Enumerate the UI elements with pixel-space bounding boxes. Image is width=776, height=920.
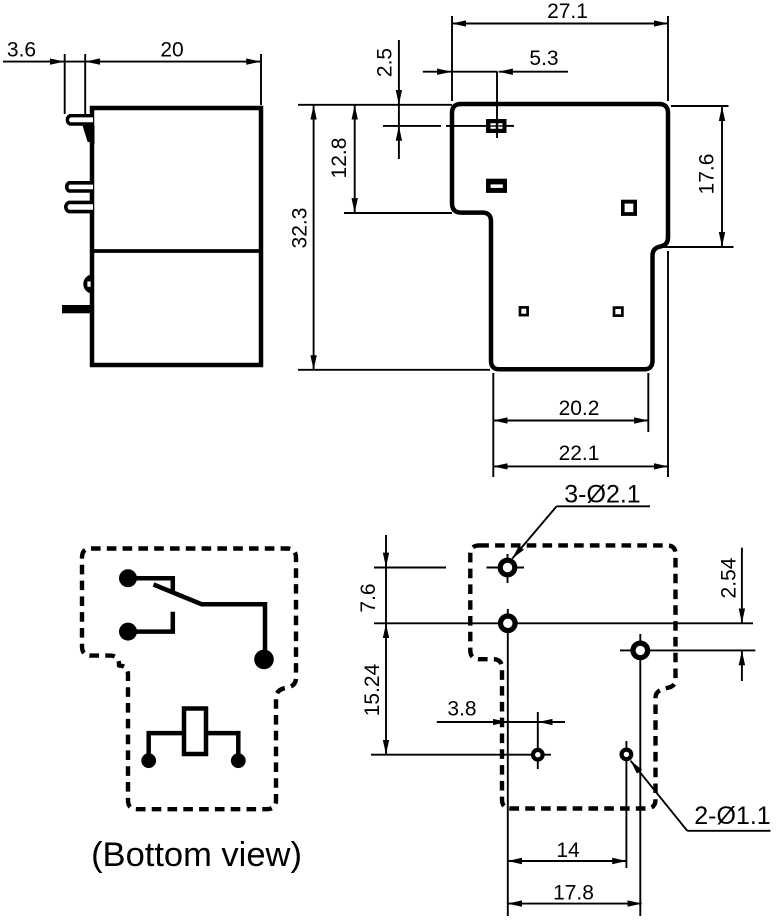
hole 1 (mounting hole 2.1): [500, 560, 515, 575]
svg-text:2-Ø1.1: 2-Ø1.1: [694, 802, 770, 830]
hole 5 (coil pin hole 1.1): [622, 750, 632, 760]
dim line 2.5 middle segment: [398, 105, 400, 126]
extension line at pin tip: [64, 54, 66, 114]
hole 3 crosshair horizontal: [620, 649, 755, 651]
coil left lead: [149, 733, 184, 756]
svg-text:5.3: 5.3: [529, 47, 558, 70]
common terminal dot: [254, 650, 274, 670]
svg-text:22.1: 22.1: [559, 442, 600, 465]
pin A centerline over pin: [496, 119, 498, 133]
svg-text:3-Ø2.1: 3-Ø2.1: [564, 481, 640, 509]
leader underline 2-Ø1.1: [687, 830, 770, 832]
svg-text:2.54: 2.54: [718, 557, 741, 598]
hole 1 reference line left: [374, 567, 446, 569]
extension line left (body left edge): [451, 16, 453, 101]
dim line 22.1: [494, 465, 669, 467]
extension line lower-right edge: [647, 373, 649, 432]
svg-text:12.8: 12.8: [328, 138, 351, 179]
NC contact wire with hook: [128, 578, 173, 593]
svg-text:15.24: 15.24: [361, 663, 384, 716]
dim line 7.6/15.24 connecting segment: [385, 568, 387, 624]
dim line 7.6 upper tail with down arrow: [385, 535, 387, 567]
extension line at pin base: [84, 54, 86, 126]
svg-text:17.6: 17.6: [696, 154, 719, 195]
svg-text:3.8: 3.8: [447, 698, 476, 721]
coil pin end-on (half washer): [83, 274, 93, 293]
hole 1 crosshair vertical: [507, 554, 509, 583]
dim line 2.54 lower tail with up arrow: [741, 651, 743, 681]
svg-text:32.3: 32.3: [289, 208, 312, 249]
NC contact terminal dot: [119, 569, 137, 587]
dim line 2.54 upper tail with down arrow: [741, 548, 743, 623]
bottom pin (solid): [62, 305, 93, 313]
white notch in half washer: [87, 281, 90, 286]
pin B white slit: [491, 184, 503, 188]
dim line 32.3: [313, 106, 315, 370]
svg-text:20.2: 20.2: [559, 397, 600, 420]
switch blade wire to common: [154, 585, 266, 660]
pin C white center: [625, 204, 634, 213]
dashed relay outline: [82, 549, 296, 810]
svg-text:14: 14: [556, 839, 580, 862]
leader underline 3-Ø2.1: [557, 505, 650, 507]
svg-text:27.1: 27.1: [547, 0, 588, 23]
hole 5 crosshair vertical (long centerline): [625, 741, 627, 868]
body divider line: [92, 249, 261, 253]
coil right terminal dot: [231, 753, 246, 768]
extension line right (body right edge): [667, 16, 669, 101]
extension line bottom-left corner: [492, 373, 494, 477]
hole 2 crosshair horizontal (long centerline): [374, 622, 753, 624]
pin A centerline horizontal (dash): [383, 125, 441, 127]
right step reference line (17.6 bottom): [656, 246, 734, 248]
leader arrow to hole 5: [631, 761, 688, 831]
hole 4 crosshair vertical: [537, 712, 539, 769]
top pin (flat lug): [67, 116, 93, 124]
extension line right edge (down from notch): [667, 251, 669, 477]
pin A white slit upper: [491, 123, 503, 125]
svg-text:(Bottom view): (Bottom view): [91, 836, 302, 874]
dim line 5.3 middle segment: [452, 71, 498, 73]
pin A white slit lower: [491, 127, 503, 129]
dim line 2.5 lower tail with up arrow: [398, 127, 400, 159]
svg-text:20: 20: [160, 39, 183, 62]
dim line 14: [508, 860, 627, 862]
NO contact wire with hook: [128, 612, 173, 632]
relay footprint outline (T-shape): [452, 104, 668, 369]
hole 1 crosshair horizontal: [487, 567, 525, 569]
step reference line (12.8 bottom): [344, 212, 452, 214]
dim line 2.5 upper part with down arrow: [398, 40, 400, 104]
bottom edge reference line (left): [298, 369, 490, 371]
extension line at body right: [260, 54, 262, 105]
dim line 5.3 left tail with arrow: [423, 71, 452, 73]
NO contact terminal dot: [119, 623, 137, 641]
dim line segment between extension lines: [65, 61, 86, 63]
dim line 17.8: [508, 903, 642, 905]
hole 4 crosshair horizontal (15.24 reference): [371, 754, 551, 756]
dashed relay outline: [470, 545, 675, 808]
dim line 3.6 (arrow pointing right): [3, 61, 64, 63]
hole 2 crosshair vertical (long centerline): [507, 609, 509, 916]
top edge reference line (left): [298, 104, 452, 106]
relay body rectangle: [92, 108, 261, 365]
dim line 15.24 (up arrow at top, down arrow at bottom): [385, 624, 387, 754]
leader arrow to hole 1: [512, 506, 556, 558]
dim line 17.6: [721, 107, 723, 246]
pin B (flat lug): [486, 179, 507, 193]
bent pin wedge below top pin: [83, 126, 95, 145]
pin A (flat lug, top): [486, 119, 507, 133]
dim line 27.1: [452, 23, 668, 25]
hole 3 crosshair vertical (long centerline): [639, 634, 641, 916]
pin A centerline horizontal (dash 2): [446, 125, 486, 127]
dim line 20 (arrows at both ends): [86, 61, 261, 63]
pin D (coil pin left): [520, 307, 528, 315]
svg-text:2.5: 2.5: [374, 48, 397, 77]
top edge reference line (right): [671, 105, 729, 107]
dim line 12.8: [354, 106, 356, 213]
coil left terminal dot: [141, 753, 156, 768]
hole 3 (mounting hole 2.1): [633, 643, 648, 658]
svg-text:3.6: 3.6: [7, 39, 36, 62]
dim line 20.2: [494, 420, 649, 422]
pin C (square pin right): [621, 200, 637, 216]
middle pin 1: [67, 183, 93, 191]
dim line 3.8 middle segment: [508, 721, 538, 723]
dim line 5.3 right tail with arrow: [499, 71, 568, 73]
hole 4 (coil pin hole 1.1): [533, 750, 543, 760]
coil right lead: [206, 733, 238, 756]
pin E (coil pin right): [614, 308, 622, 316]
hole 2 (mounting hole 2.1): [501, 616, 516, 631]
pin A centerline vertical: [496, 72, 498, 138]
dim line 3.8 left tail with arrow: [437, 721, 507, 723]
svg-text:7.6: 7.6: [357, 583, 380, 612]
coil rectangle: [184, 709, 206, 755]
dim line 3.8 right tail with arrow: [539, 721, 566, 723]
middle pin 2: [66, 202, 93, 211]
svg-text:17.8: 17.8: [553, 882, 594, 905]
pin A centerline horizontal (dash 3): [507, 125, 515, 127]
